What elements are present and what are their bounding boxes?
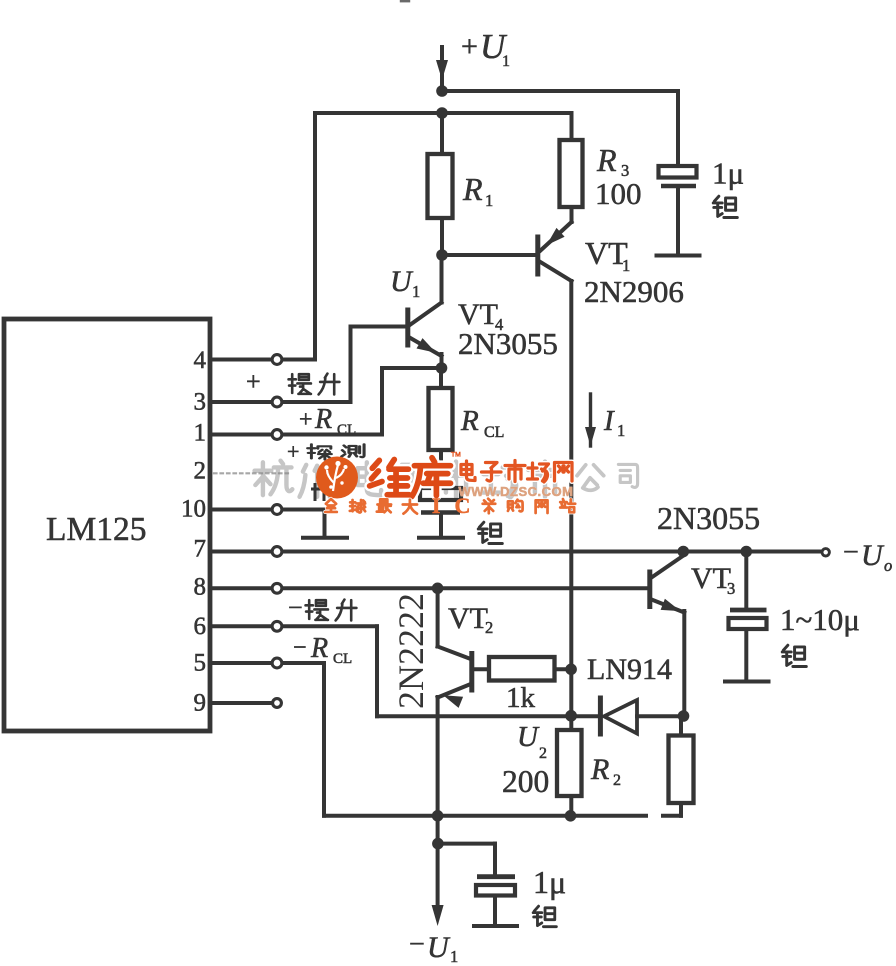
- svg-text:2: 2: [613, 772, 621, 789]
- svg-text:2N3055: 2N3055: [657, 500, 760, 536]
- svg-text:1k: 1k: [506, 682, 536, 714]
- svg-text:+: +: [287, 439, 299, 464]
- svg-text:U: U: [390, 265, 414, 298]
- svg-text:R: R: [590, 753, 609, 786]
- svg-text:R: R: [460, 405, 479, 437]
- svg-text:1: 1: [622, 256, 630, 275]
- svg-text:CL: CL: [333, 651, 352, 667]
- svg-text:8: 8: [194, 574, 207, 601]
- svg-text:−: −: [293, 635, 307, 661]
- svg-text:R: R: [314, 404, 332, 435]
- svg-text:−: −: [409, 929, 425, 960]
- svg-text:+: +: [299, 407, 313, 433]
- svg-text:U: U: [427, 931, 451, 964]
- svg-text:200: 200: [502, 764, 549, 799]
- svg-text:6: 6: [194, 613, 207, 640]
- svg-text:2N2906: 2N2906: [584, 274, 684, 309]
- svg-text:1μ: 1μ: [712, 156, 744, 191]
- svg-text:1: 1: [450, 947, 458, 966]
- svg-text:LN914: LN914: [587, 653, 672, 686]
- svg-text:1: 1: [485, 191, 493, 210]
- svg-text:2: 2: [194, 458, 207, 485]
- svg-text:R: R: [596, 142, 617, 178]
- svg-text:3: 3: [727, 579, 735, 598]
- svg-text:4: 4: [194, 347, 207, 374]
- svg-text:WWW.DZSC.COM: WWW.DZSC.COM: [458, 484, 573, 499]
- svg-text:10: 10: [181, 496, 206, 523]
- svg-text:1: 1: [194, 420, 207, 447]
- svg-text:CL: CL: [337, 422, 356, 438]
- svg-text:TM: TM: [451, 452, 461, 459]
- svg-text:LM125: LM125: [46, 511, 147, 548]
- svg-text:3: 3: [194, 389, 207, 416]
- svg-text:R: R: [462, 171, 483, 207]
- svg-text:1μ: 1μ: [533, 864, 566, 900]
- svg-text:5: 5: [194, 650, 207, 677]
- svg-text:U: U: [517, 721, 540, 753]
- svg-text:9: 9: [194, 690, 207, 717]
- svg-text:2: 2: [485, 618, 493, 637]
- svg-text:7: 7: [194, 536, 207, 563]
- svg-text:I: I: [432, 493, 441, 518]
- svg-text:R: R: [310, 633, 328, 664]
- svg-text:−: −: [288, 593, 303, 622]
- svg-text:o: o: [884, 556, 892, 575]
- svg-text:+: +: [246, 367, 261, 396]
- svg-text:CL: CL: [484, 424, 504, 441]
- svg-text:+: +: [461, 30, 478, 63]
- svg-text:2N2222: 2N2222: [391, 593, 431, 709]
- svg-text:VT: VT: [448, 602, 488, 635]
- svg-text:−: −: [843, 537, 859, 568]
- svg-text:VT: VT: [691, 562, 731, 595]
- svg-text:1: 1: [412, 282, 420, 301]
- svg-text:I: I: [603, 405, 615, 437]
- svg-text:2N3055: 2N3055: [458, 326, 558, 361]
- svg-text:2: 2: [539, 745, 547, 762]
- svg-text:100: 100: [595, 176, 642, 211]
- svg-text:1~10μ: 1~10μ: [780, 602, 860, 637]
- svg-text:1: 1: [617, 421, 625, 440]
- svg-text:1: 1: [502, 53, 510, 70]
- svg-text:U: U: [861, 539, 885, 572]
